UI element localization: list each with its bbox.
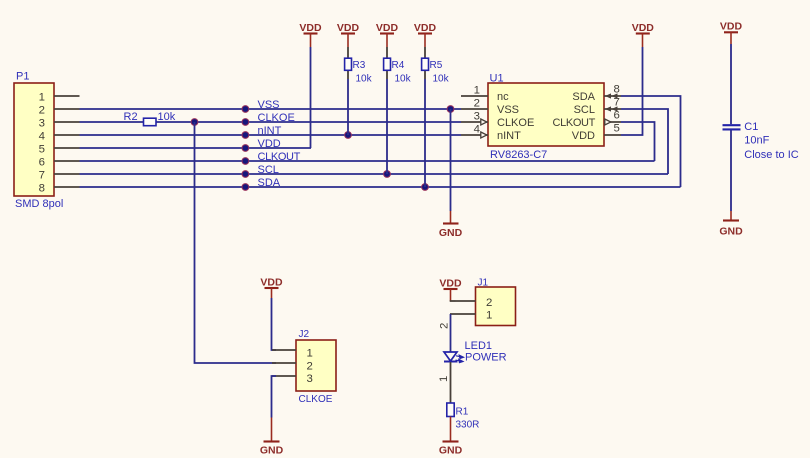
power symbol VDD (above R3) [337,22,360,47]
junction dot R5 on SDA [421,183,429,191]
svg-text:10nF: 10nF [744,135,769,147]
U1 pin3 clock triangle [481,119,487,125]
ground symbol GND (under R1) [439,417,463,457]
svg-text:CLKOE: CLKOE [497,117,534,129]
U1 inside pin names left [497,91,534,142]
wire net CLKOUT horizontal [80,160,655,162]
svg-text:8: 8 [39,183,45,195]
svg-text:R3: R3 [353,60,366,71]
wire R3 to nINT row [347,79,349,135]
wire J1 pin1 down to LED [450,314,452,352]
svg-text:VDD: VDD [258,138,281,150]
svg-text:SDA: SDA [258,177,281,189]
J1 pin stubs [450,301,476,314]
wire net CLKOE right of R2 [156,121,461,123]
P1 pin 5 stub [54,147,80,149]
U1 right pin stubs 8-5 [604,96,621,135]
svg-text:3: 3 [39,118,45,130]
connector P1 body [14,83,54,196]
wire VSS tap down to GND [450,109,452,211]
svg-text:R5: R5 [430,60,443,71]
U1 right pin numbers [614,84,620,135]
J2 pin numbers [307,348,313,386]
U1 inside pin names right [552,91,595,142]
wire R4 to SCL row [386,79,388,174]
svg-text:1: 1 [486,310,492,322]
wire LED cathode to R1 [450,362,452,403]
svg-text:3: 3 [307,373,313,385]
wire CLKOE tap down to J2 pin2 [195,122,277,363]
J2 pin stubs [272,350,296,376]
junction dot VSS label [242,105,250,113]
wire net nINT horizontal [80,134,462,136]
svg-text:POWER: POWER [465,352,507,364]
svg-text:R2: R2 [124,111,138,123]
svg-text:1: 1 [39,92,45,104]
ground symbol GND (under C1) [719,211,743,238]
connector J1 body [476,287,516,326]
svg-text:R4: R4 [392,60,405,71]
svg-text:LED1: LED1 [465,340,493,352]
wire net VDD horizontal [80,147,312,149]
U1 pin7 bidirectional arrows [605,106,618,111]
svg-text:VSS: VSS [258,99,280,111]
svg-text:P1: P1 [16,71,29,83]
power symbol VDD (left, net VDD) [299,22,322,47]
wire net VSS horizontal [80,108,462,110]
svg-text:CLKOE: CLKOE [258,112,295,124]
svg-text:2: 2 [474,98,480,110]
LED LED1 symbol [444,352,458,362]
junction dot SCL label [242,170,250,178]
wire net CLKOE left of R2 [80,121,144,123]
svg-text:Close to IC: Close to IC [744,149,798,161]
ground symbol GND (under J2) [260,418,284,457]
P1 pin 3 stub [54,121,80,123]
svg-text:CLKOUT: CLKOUT [552,117,595,129]
svg-text:1: 1 [307,348,313,360]
svg-text:SDA: SDA [572,91,595,103]
wire VDD to J1 pin2 [450,300,456,302]
svg-text:VDD: VDD [414,22,437,34]
svg-text:VDD: VDD [260,277,283,289]
svg-text:C1: C1 [744,121,758,133]
svg-text:GND: GND [260,445,284,457]
resistor R3 body [345,58,352,70]
svg-text:J1: J1 [478,278,489,289]
P1 pin numbers 1-8 [39,92,45,195]
capacitor C1 plates [723,125,741,129]
P1 pin 2 stub [54,108,80,110]
wire SDA wrap from U1 pin8 [621,96,681,187]
junction dot CLKOUT label [242,157,250,165]
svg-text:SCL: SCL [574,104,595,116]
svg-text:4: 4 [474,124,480,136]
junction dot SDA label [242,183,250,191]
U1 pin6 clock triangle [605,119,611,125]
svg-text:U1: U1 [490,73,504,85]
resistor R5 pins [424,47,426,58]
svg-text:8: 8 [614,84,620,96]
resistor R4 pins [386,47,388,58]
svg-text:2: 2 [307,361,313,373]
svg-text:10k: 10k [395,74,412,85]
svg-text:7: 7 [39,170,45,182]
svg-text:10k: 10k [433,74,450,85]
junction dot CLKOE label [242,118,250,126]
svg-text:4: 4 [39,131,45,143]
U1 pin4 clock triangle [481,132,487,138]
power symbol VDD (above J2) [260,277,283,299]
svg-text:GND: GND [439,227,463,239]
wire VDD vertical to VDD row [310,47,312,148]
junction dot VSS to GND tap [447,105,455,113]
svg-text:nc: nc [497,91,509,103]
P1 pin 4 stub [54,134,80,136]
junction dot nINT label [242,131,250,139]
J1 pin numbers [486,297,492,322]
svg-text:VDD: VDD [337,22,360,34]
power symbol VDD (above U1 pin5) [632,22,655,47]
junction dot R2 tap to J2 [191,118,199,126]
svg-text:6: 6 [614,110,620,122]
svg-text:CLKOUT: CLKOUT [258,151,301,163]
svg-text:VDD: VDD [572,130,595,142]
resistor R1 body [447,403,454,417]
svg-text:5: 5 [39,144,45,156]
U1 left pin stubs 1-4 [461,96,488,135]
resistor R3 pins [347,47,349,58]
svg-text:CLKOE: CLKOE [299,394,333,405]
svg-text:7: 7 [614,97,620,109]
svg-text:VDD: VDD [720,21,743,33]
svg-text:J2: J2 [299,329,310,340]
power symbol VDD (above LED chain) [439,278,462,302]
svg-text:5: 5 [614,123,620,135]
svg-text:VDD: VDD [299,22,322,34]
resistor R2 body [144,118,157,126]
svg-text:VDD: VDD [439,278,462,290]
junction dot R4 on SCL [383,170,391,178]
wire CLKOUT wrap from U1 pin6 [621,122,655,161]
svg-text:nINT: nINT [258,125,282,137]
IC U1 body [488,83,604,146]
svg-text:1: 1 [438,376,450,382]
LED1 emission arrows [456,355,464,363]
power symbol VDD (above R4) [376,22,399,47]
svg-text:2: 2 [486,297,492,309]
svg-text:2: 2 [439,323,451,329]
svg-text:3: 3 [474,111,480,123]
resistor R4 body [384,58,391,70]
svg-text:SCL: SCL [258,164,279,176]
power symbol VDD (above R5) [414,22,437,47]
junction dot R3 on nINT [344,131,352,139]
wire SCL wrap from U1 pin7 [621,109,668,174]
wire net SCL horizontal [80,173,669,175]
wire C1 bottom to GND [730,130,732,211]
wire net SDA horizontal [80,186,681,188]
junction dot VDD label [242,144,250,152]
P1 pin 1 stub (n.c.) [54,95,80,97]
svg-text:SMD 8pol: SMD 8pol [15,198,63,210]
svg-text:R1: R1 [456,407,469,418]
svg-text:VSS: VSS [497,104,519,116]
wire VDD to C1 top [730,44,732,124]
svg-text:10k: 10k [356,74,373,85]
U1 pin8 bidirectional arrows [605,93,618,98]
svg-text:nINT: nINT [497,130,521,142]
connector J2 body [296,340,336,391]
U1 left pin numbers [474,85,480,136]
power symbol VDD (above C1) [720,21,743,45]
svg-text:GND: GND [439,445,463,457]
wire VDD down to J2 pin1 [272,298,277,350]
P1 pin 8 stub [54,186,80,188]
svg-text:VDD: VDD [376,22,399,34]
svg-text:RV8263-C7: RV8263-C7 [490,149,547,161]
P1 pin 7 stub [54,173,80,175]
svg-text:10k: 10k [158,111,176,123]
svg-text:2: 2 [39,105,45,117]
wire VDD down to U1 pin5 [621,47,643,135]
ground symbol GND (net VSS) [439,211,463,239]
wire J2 pin3 to GND [272,376,277,418]
P1 pin 6 stub [54,160,80,162]
svg-text:330R: 330R [456,420,480,431]
svg-text:VDD: VDD [632,22,655,34]
resistor R5 body [422,58,429,70]
svg-text:6: 6 [39,157,45,169]
svg-text:GND: GND [719,226,743,238]
wire R5 to SDA row [424,79,426,187]
svg-text:1: 1 [474,85,480,97]
